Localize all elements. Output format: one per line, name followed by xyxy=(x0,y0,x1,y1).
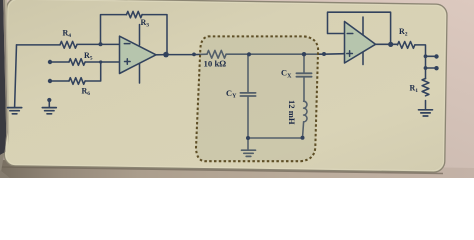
wire CY node to CX node xyxy=(249,53,304,55)
node R5 input terminal dot xyxy=(48,60,52,64)
wire left vertical to ground xyxy=(15,45,17,108)
wire CY top xyxy=(247,54,249,93)
wire R6 row xyxy=(50,80,69,82)
wire op-amp2 plus lead xyxy=(343,53,345,55)
node inductor bottom dot xyxy=(301,136,305,140)
op-amp U1 power pins xyxy=(139,25,141,84)
wire R2 to right vertical xyxy=(415,45,426,79)
node R3/R4 junction dot xyxy=(99,42,103,46)
resistor R5 xyxy=(69,59,85,66)
node R6 input terminal dot xyxy=(48,79,52,83)
ground G2 xyxy=(42,108,56,114)
photo surface background xyxy=(0,0,474,178)
op-amp U1 minus symbol xyxy=(124,43,130,45)
wire CX node to op-amp2 xyxy=(304,53,345,56)
wire R5 to op-amp plus input xyxy=(85,61,119,63)
wire op-amp1 output xyxy=(156,53,207,56)
node stub terminal dot a xyxy=(434,54,438,58)
page (beige card, slightly rotated) xyxy=(4,0,447,172)
wire inductor bottom xyxy=(303,122,304,138)
svg-text:12 mH: 12 mH xyxy=(287,100,297,125)
wire stub out2 xyxy=(426,67,437,69)
wire R6 riser xyxy=(85,62,101,81)
contact shadow under page bottom edge xyxy=(1,167,443,174)
capacitor CX xyxy=(296,73,311,76)
node output1 dot xyxy=(163,52,169,58)
wire feedback left vertical xyxy=(101,15,127,45)
capacitor CY xyxy=(240,93,255,96)
wire stub out1 xyxy=(426,55,437,57)
ground G1 xyxy=(8,108,22,114)
wire R1 to ground xyxy=(425,101,427,110)
wire R4 row left xyxy=(17,44,61,46)
op-amp U2 xyxy=(345,22,376,64)
inductor 12mH xyxy=(304,101,307,122)
wire CY bottom xyxy=(247,96,249,138)
op-amp U1 xyxy=(120,36,157,73)
resistor R6 xyxy=(69,78,85,85)
resistor R4 xyxy=(60,41,77,48)
node stub junction dot b xyxy=(424,66,428,70)
dark photo edge left xyxy=(0,0,6,155)
op-amp U2 power pins xyxy=(362,17,364,65)
ground G4 xyxy=(419,110,433,116)
ground G3 xyxy=(242,150,256,156)
node CY bottom dot xyxy=(246,136,250,140)
dashed component box xyxy=(196,36,318,161)
svg-text:10 kΩ: 10 kΩ xyxy=(204,59,227,69)
wire CX to inductor xyxy=(303,77,305,101)
wire ground3 stem xyxy=(247,138,249,150)
wire feedback2 loop xyxy=(328,12,391,44)
op-amp U2 minus symbol xyxy=(347,33,353,35)
wire ground terminal stub xyxy=(48,100,50,107)
resistor R2 xyxy=(398,42,415,49)
node rail dot xyxy=(192,53,196,57)
wire CX top xyxy=(303,54,305,73)
wire feedback right vertical xyxy=(142,15,167,55)
op-amp U2 plus symbol xyxy=(347,51,353,57)
node R5/R6 junction dot xyxy=(99,60,102,63)
resistor R3 xyxy=(127,11,143,17)
node output2 dot xyxy=(388,42,393,47)
wire R4 to op-amp xyxy=(77,43,120,45)
wire R5 row xyxy=(50,61,69,63)
node stub terminal dot b xyxy=(434,66,438,70)
resistor 10k xyxy=(207,50,226,58)
wire bottom inside box xyxy=(248,137,303,139)
node CX top junction dot xyxy=(302,52,306,56)
resistor R1 xyxy=(422,79,429,96)
node CY top junction dot xyxy=(247,52,251,56)
wire op-amp2 output xyxy=(376,43,398,45)
node ground terminal dot xyxy=(47,98,51,102)
surface strip below page xyxy=(0,160,474,178)
node pre op-amp2 dot xyxy=(322,52,326,56)
wire 10k to CY node xyxy=(226,53,249,55)
node stub junction dot a xyxy=(424,54,428,58)
op-amp U1 plus symbol xyxy=(125,59,131,65)
